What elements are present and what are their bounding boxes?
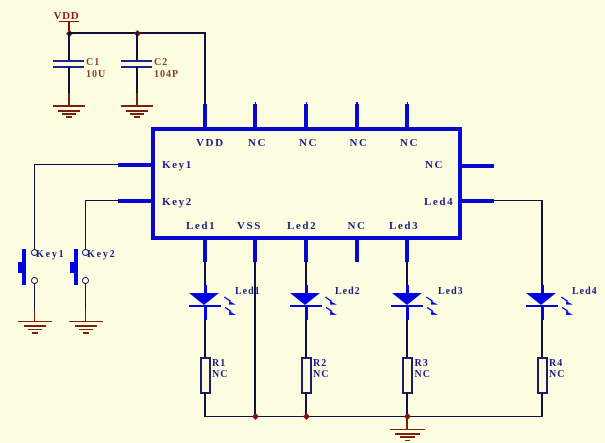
pin label Led4 right	[424, 197, 454, 208]
wire Key2 vertical down	[85, 200, 87, 250]
pushbutton Key2 plunger	[70, 262, 74, 273]
wire Led2 pin to LED2	[305, 261, 307, 286]
LED D4 cathode stub	[541, 307, 544, 320]
ground under Key1	[34, 309, 36, 322]
LED D2 net label Led2	[335, 287, 361, 297]
LED D2 anode stub	[305, 285, 308, 294]
LED D3 emission arrows	[424, 294, 442, 317]
LED D4 emission arrows	[559, 294, 577, 317]
pin NC (top 4)	[355, 104, 359, 128]
LED D3 net label Led3	[438, 287, 464, 297]
pin label Key1	[162, 160, 193, 171]
LED D1 triangle	[189, 293, 219, 305]
LED D1 anode stub	[204, 285, 207, 294]
pushbutton Key1 bottom contact	[31, 277, 38, 284]
junction Led2 at bottom rail	[303, 413, 310, 420]
junction VSS at bottom rail	[252, 413, 259, 420]
wire Key2 button to ground	[85, 283, 87, 310]
LED D3 cathode stub	[406, 307, 409, 320]
capacitor C1 bottom plate	[53, 66, 84, 68]
pushbutton Key2 label	[87, 250, 116, 260]
pushbutton Key2 bottom contact	[82, 277, 89, 284]
wire Key1 button to ground	[34, 283, 36, 310]
LED D1 emission arrows	[222, 294, 240, 317]
resistor R1 designator	[212, 359, 226, 369]
pin VSS (bottom 2)	[253, 239, 257, 262]
resistor R3 designator	[415, 359, 429, 369]
wire R1 to bottom rail	[204, 393, 206, 417]
capacitor C2 top plate	[121, 60, 152, 62]
LED D1 cathode bar	[189, 305, 221, 307]
resistor R3 value NC	[415, 370, 431, 380]
resistor R3 body	[402, 357, 413, 394]
capacitor C2 designator label	[154, 58, 168, 68]
capacitor C2 bottom plate	[121, 66, 152, 68]
LED D4 triangle	[526, 293, 556, 305]
pin label Key2	[162, 197, 193, 208]
pin NC (top 5)	[405, 104, 409, 128]
resistor R2 body	[301, 357, 312, 394]
wire R4 to bottom rail	[541, 393, 543, 417]
junction at VDD rail x69	[66, 30, 73, 37]
wire Key2 pin to button: horizontal	[85, 200, 119, 202]
pin Led3 (bottom 5)	[405, 239, 409, 262]
wire R3 to bottom rail	[406, 393, 408, 417]
resistor R2 designator	[313, 359, 327, 369]
junction ground at bottom rail	[404, 413, 411, 420]
wire Key1 pin to button: horizontal	[34, 164, 119, 166]
LED D1 cathode stub	[204, 307, 207, 320]
pin label NC top4	[350, 138, 369, 149]
wire Led4 vertical down	[541, 200, 543, 287]
capacitor C1 top plate	[53, 60, 84, 62]
LED D2 triangle	[290, 293, 320, 305]
pin NC (top 2)	[253, 104, 257, 128]
LED D4 anode stub	[541, 285, 544, 294]
pin label NC right	[425, 160, 444, 171]
wire LED1 to R1	[204, 319, 206, 358]
pin Led2 (bottom 3)	[304, 239, 308, 262]
wire LED4 to R4	[541, 319, 543, 358]
LED D2 cathode bar	[290, 305, 322, 307]
pushbutton Key1 top contact	[31, 249, 38, 256]
pin label NC bottom	[348, 221, 367, 232]
LED D3 triangle	[392, 293, 422, 305]
capacitor C1 value 10U	[86, 70, 106, 80]
pin NC (bottom 4)	[355, 239, 359, 262]
wire VDD rail horizontal	[68, 32, 206, 34]
wire VDD junction down to C2	[136, 32, 138, 60]
ground under C2	[136, 93, 138, 106]
IC U1 body rectangle	[151, 127, 462, 240]
LED D3 anode stub	[406, 285, 409, 294]
ground under Key2	[85, 309, 87, 322]
LED D1 net label Led1	[235, 287, 261, 297]
LED D2 emission arrows	[323, 294, 341, 317]
wire C2 bottom lead	[136, 67, 138, 93]
LED D3 cathode bar	[391, 305, 423, 307]
wire VDD junction down to C1	[68, 32, 70, 60]
wire VSS pin to bottom rail	[254, 261, 256, 417]
pin NC (top 3)	[304, 104, 308, 128]
pin label NC top3	[299, 138, 318, 149]
wire LED2 to R2	[305, 319, 307, 358]
wire VDD rail down to pin VDD of U1	[204, 32, 206, 105]
pin label VDD	[196, 138, 225, 149]
pin Key1 (left 1)	[118, 163, 152, 167]
pin label NC top2	[248, 138, 267, 149]
wire Led1 pin to LED1	[204, 261, 206, 286]
resistor R1 value NC	[212, 370, 228, 380]
resistor R4 designator	[549, 359, 563, 369]
pushbutton Key2 top contact	[82, 249, 89, 256]
pin VDD (top 1)	[203, 104, 207, 128]
resistor R4 body	[537, 357, 548, 394]
LED D4 cathode bar	[526, 305, 558, 307]
resistor R4 value NC	[549, 370, 565, 380]
power VDD stub	[68, 21, 70, 31]
pushbutton Key2 actuator bar	[74, 249, 78, 285]
pin label VSS bottom	[237, 221, 262, 232]
junction at VDD rail x137	[134, 30, 141, 37]
ground center bottom	[406, 417, 408, 429]
resistor R2 value NC	[313, 370, 329, 380]
capacitor C2 value 104P	[154, 70, 179, 80]
wire Led4 pin horizontal	[494, 200, 543, 202]
LED D2 cathode stub	[305, 307, 308, 320]
resistor R1 body	[200, 357, 211, 394]
pin label Led1 bottom	[186, 221, 216, 232]
LED D4 net label Led4	[572, 287, 598, 297]
pin Key2 (left 2)	[118, 199, 152, 203]
pushbutton Key1 label	[36, 250, 65, 260]
pushbutton Key1 actuator bar	[22, 249, 26, 285]
wire LED3 to R3	[406, 319, 408, 358]
wire C1 bottom lead	[68, 67, 70, 93]
pin NC (right 1)	[461, 164, 494, 168]
capacitor C1 designator label	[86, 58, 100, 68]
pin label NC top5	[400, 138, 419, 149]
pin Led1 (bottom 1)	[203, 239, 207, 262]
pin label Led2 bottom	[287, 221, 317, 232]
pin Led4 (right 2)	[461, 199, 494, 203]
power VDD label	[54, 11, 80, 22]
power VDD underline bar	[59, 21, 79, 23]
pushbutton Key1 plunger	[18, 262, 22, 273]
wire Key1 vertical down	[34, 164, 36, 250]
wire Led3 pin to LED3	[406, 261, 408, 286]
ground under C1	[68, 93, 70, 106]
wire R2 to bottom rail	[305, 393, 307, 417]
pin label Led3 bottom	[389, 221, 419, 232]
wire bottom ground rail	[204, 416, 543, 418]
